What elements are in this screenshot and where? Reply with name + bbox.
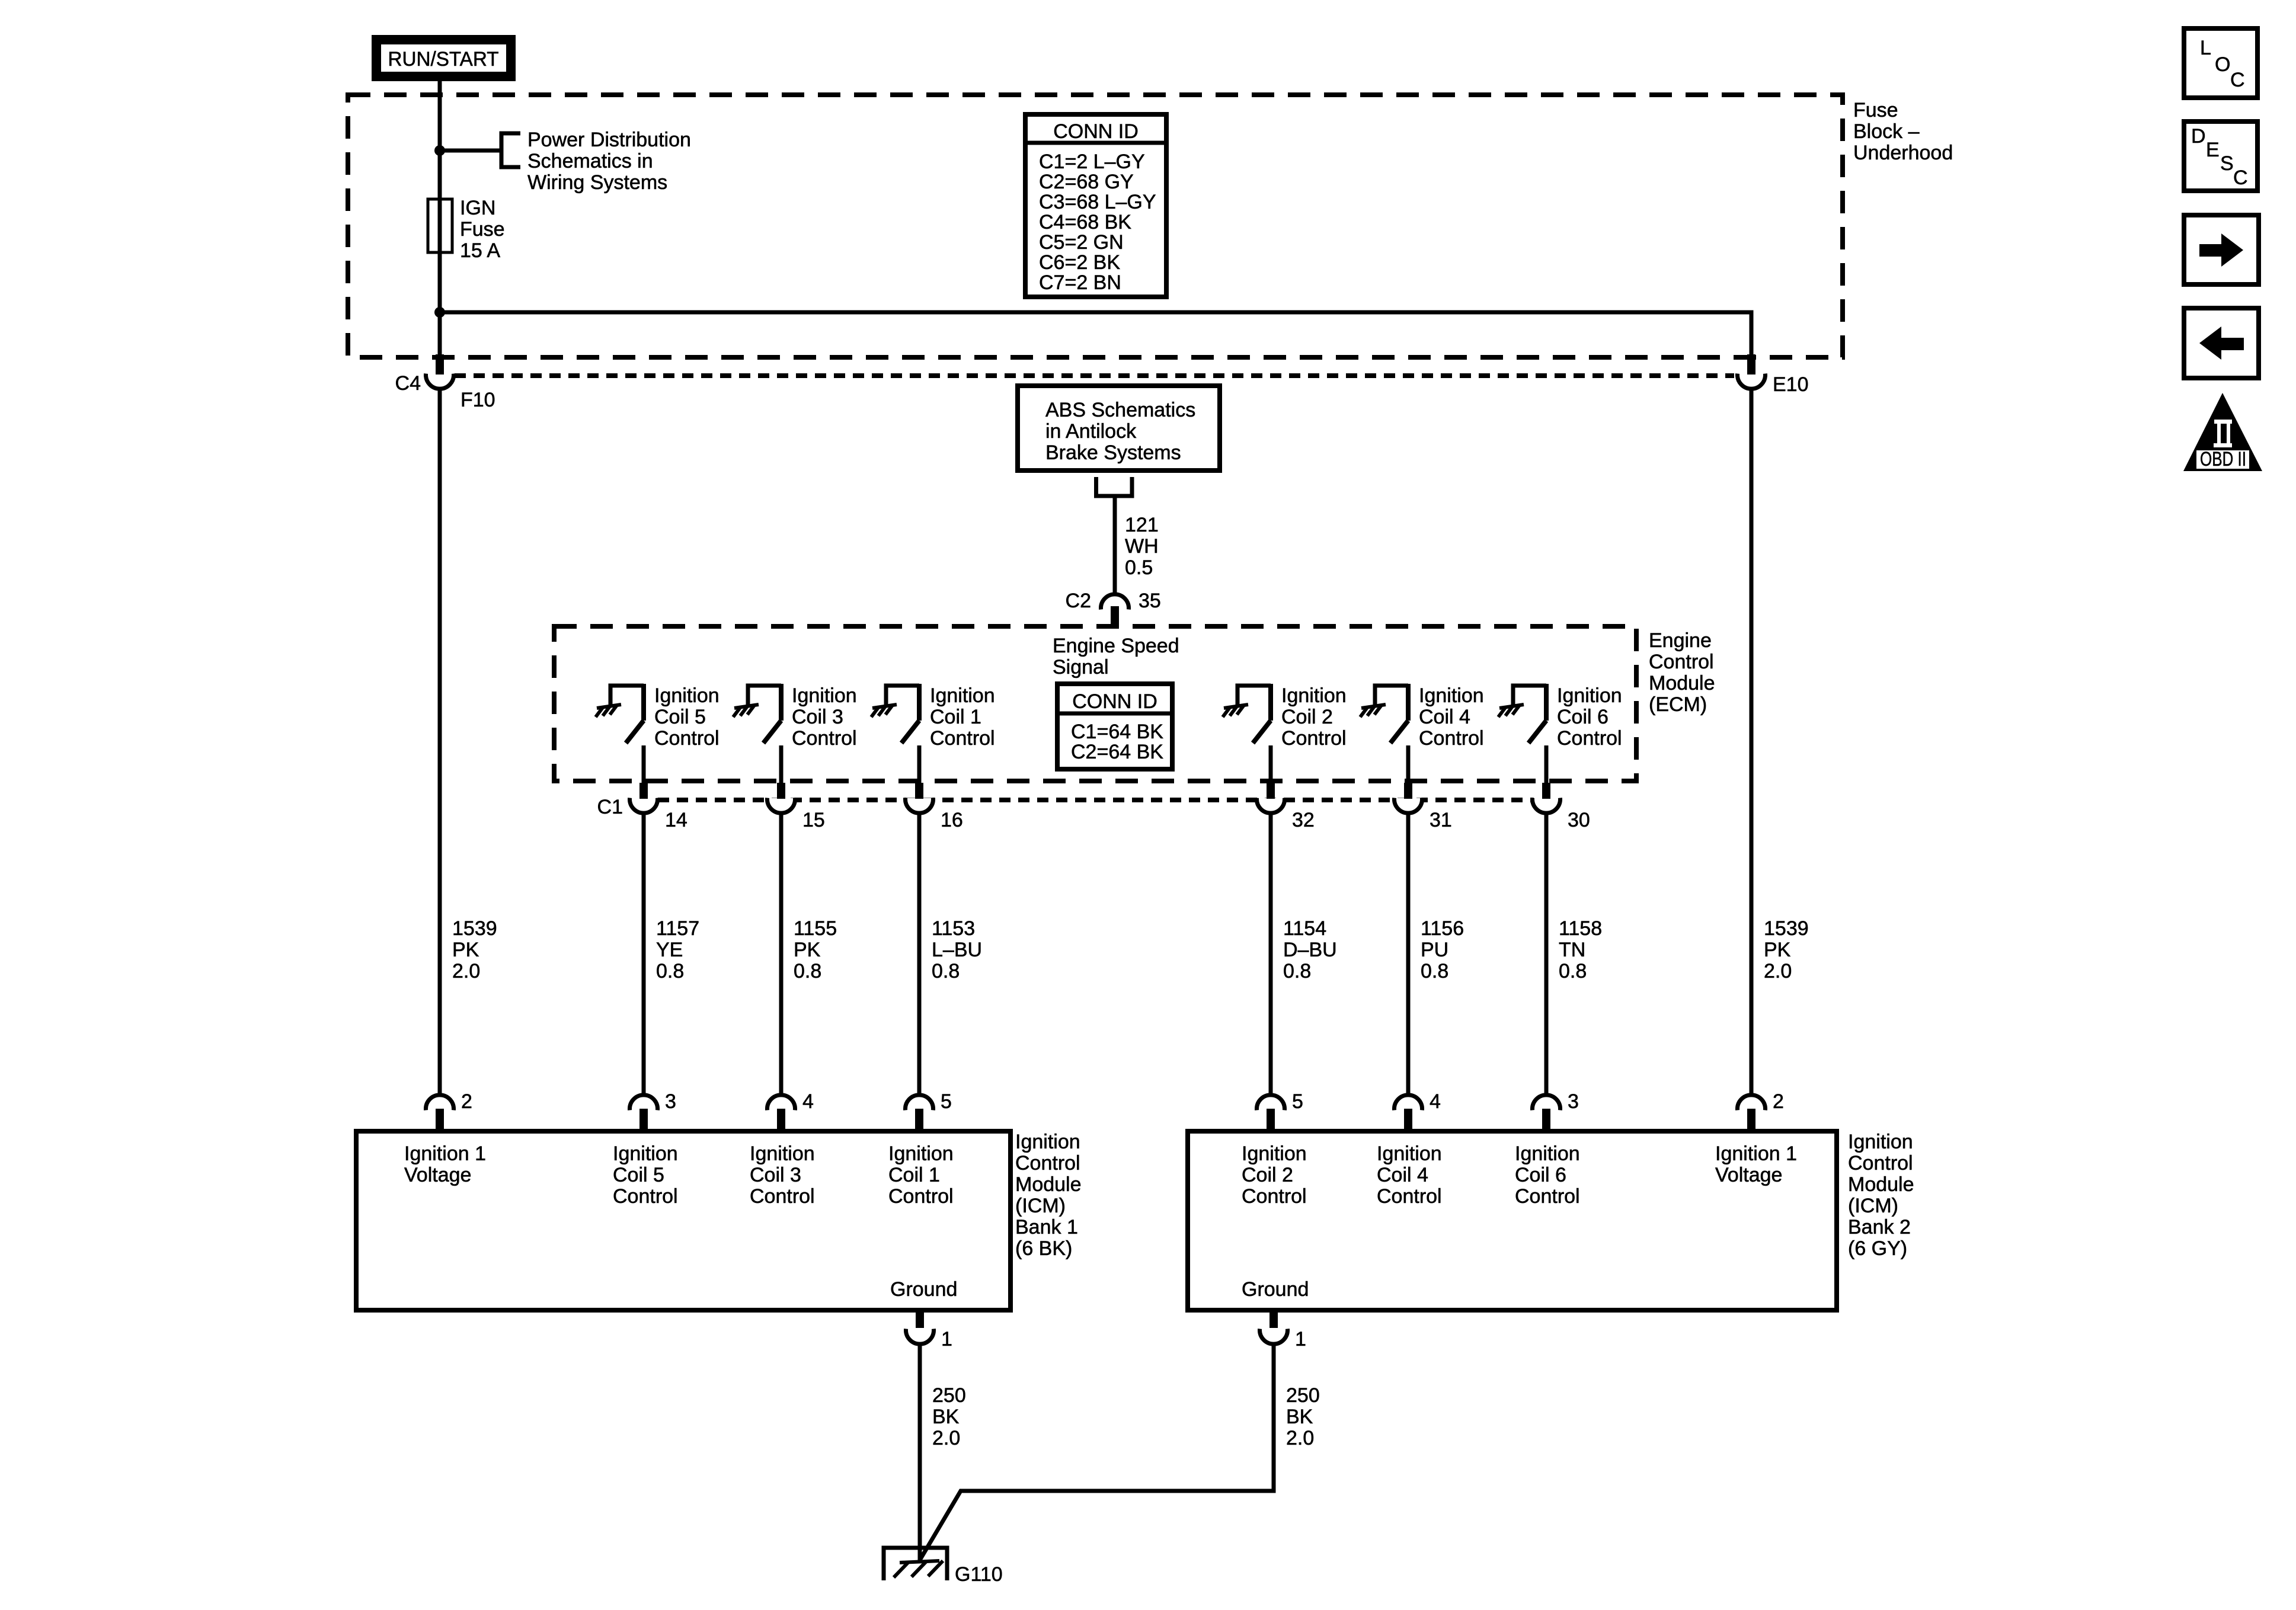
ground G110 [884, 1548, 947, 1580]
wire 250 BK from ICM bank2 to G110 [920, 1344, 1274, 1559]
svg-text:3: 3 [1568, 1090, 1579, 1113]
connector C1 pin 32 (ECM) [1257, 745, 1285, 813]
svg-text:C7=2 BN: C7=2 BN [1039, 271, 1121, 294]
svg-text:Engine: Engine [1649, 629, 1712, 652]
connector ground pin 1 (ICM) [906, 1311, 934, 1344]
svg-text:Ignition 1: Ignition 1 [404, 1142, 486, 1165]
wire branch to power distribution reference [440, 149, 501, 153]
svg-text:1539: 1539 [1764, 917, 1809, 940]
connector C1 pin 16 (ECM) [906, 745, 933, 813]
svg-text:TN: TN [1559, 939, 1585, 961]
svg-text:C4=68 BK: C4=68 BK [1039, 211, 1131, 233]
label circuit 1154 D–BU 0.8 [1283, 917, 1337, 982]
label circuit 1158 TN 0.8 [1559, 917, 1602, 982]
svg-text:Wiring Systems: Wiring Systems [527, 171, 667, 194]
svg-text:C2=64 BK: C2=64 BK [1071, 741, 1163, 763]
svg-text:0.8: 0.8 [656, 960, 684, 982]
wire RUN/START to fuse F10 [438, 81, 442, 354]
svg-text:16: 16 [941, 809, 963, 831]
ignition coil 5 driver (ECM internal) [596, 684, 720, 750]
svg-text:1154: 1154 [1283, 917, 1326, 940]
svg-text:O: O [2215, 53, 2230, 76]
svg-text:Control: Control [1242, 1185, 1307, 1208]
svg-text:C: C [2230, 69, 2245, 91]
label circuit 121 WH 0.5 [1125, 514, 1159, 579]
svg-text:PK: PK [1764, 939, 1791, 961]
svg-text:Coil 5: Coil 5 [654, 706, 706, 728]
svg-text:C1=2 L–GY: C1=2 L–GY [1039, 151, 1145, 173]
box Ignition Control Module ICM Bank 2 [1188, 1131, 1837, 1310]
switch RUN/START [372, 35, 516, 81]
svg-text:0.8: 0.8 [1421, 960, 1448, 982]
svg-text:5: 5 [941, 1090, 952, 1113]
wire ABS to C2 pin 35 (121 WH) [1113, 498, 1117, 595]
svg-text:Coil 1: Coil 1 [930, 706, 981, 728]
svg-text:BK: BK [1286, 1406, 1313, 1428]
connector pin 2 (ICM) [1738, 1095, 1766, 1129]
svg-text:Ignition: Ignition [654, 684, 720, 707]
connector pin 3 (ICM) [1533, 1095, 1560, 1129]
svg-text:C2: C2 [1066, 590, 1091, 612]
svg-text:Module: Module [1015, 1173, 1082, 1196]
wire 250 BK from ICM bank1 to G110 [918, 1344, 922, 1562]
svg-text:0.8: 0.8 [932, 960, 960, 982]
svg-text:30: 30 [1568, 809, 1590, 831]
svg-text:1155: 1155 [794, 917, 837, 940]
connector C1 pin 14 (ECM) [630, 745, 658, 813]
svg-text:5: 5 [1292, 1090, 1303, 1113]
svg-text:250: 250 [932, 1384, 966, 1407]
svg-text:L: L [2200, 37, 2211, 59]
svg-text:Power Distribution: Power Distribution [527, 129, 691, 151]
svg-text:2.0: 2.0 [1286, 1427, 1314, 1449]
svg-text:ABS Schematics: ABS Schematics [1045, 399, 1195, 421]
svg-text:Control: Control [1419, 727, 1484, 750]
svg-text:Block –: Block – [1853, 120, 1920, 143]
wire fuse output bus to E10 [440, 312, 1751, 354]
svg-text:Underhood: Underhood [1853, 142, 1953, 164]
svg-text:Ignition: Ignition [792, 684, 857, 707]
svg-text:E: E [2206, 139, 2220, 161]
svg-text:Ignition 1: Ignition 1 [1715, 1142, 1797, 1165]
ignition coil 3 driver (ECM internal) [733, 684, 857, 750]
box ABS Schematics in Antilock Brake Systems [1018, 386, 1220, 470]
svg-text:Ignition: Ignition [1515, 1142, 1580, 1165]
svg-text:Ignition: Ignition [1557, 684, 1622, 707]
svg-text:0.8: 0.8 [794, 960, 821, 982]
svg-text:Fuse: Fuse [1853, 99, 1898, 121]
table CONN ID (fuse block connectors) [1025, 114, 1166, 297]
svg-text:0.8: 0.8 [1559, 960, 1587, 982]
label circuit 1157 YE 0.8 [656, 917, 699, 982]
svg-text:Ignition: Ignition [888, 1142, 954, 1165]
svg-text:Coil 2: Coil 2 [1242, 1164, 1293, 1186]
svg-text:PK: PK [794, 939, 821, 961]
svg-text:RUN/START: RUN/START [388, 48, 499, 71]
svg-text:Brake Systems: Brake Systems [1045, 441, 1181, 464]
label circuit 1153 L–BU 0.8 [932, 917, 982, 982]
dotted connector line under fuse block [455, 373, 1734, 378]
connector pin 5 (ICM) [906, 1095, 933, 1129]
label IGN Fuse 15 A [460, 197, 505, 262]
svg-text:Bank 1: Bank 1 [1015, 1216, 1078, 1238]
svg-text:Coil 3: Coil 3 [750, 1164, 801, 1186]
svg-text:Coil 5: Coil 5 [613, 1164, 664, 1186]
svg-text:Coil 6: Coil 6 [1557, 706, 1609, 728]
label Engine Speed Signal [1053, 635, 1179, 678]
connector C1 pin 31 (ECM) [1395, 745, 1422, 813]
svg-text:Control: Control [1515, 1185, 1580, 1208]
svg-text:G110: G110 [955, 1563, 1003, 1586]
svg-text:Control: Control [1281, 727, 1347, 750]
connector pin 5 (ICM) [1257, 1095, 1285, 1129]
icon DESC [2184, 121, 2257, 191]
svg-text:Control: Control [654, 727, 720, 750]
svg-text:OBD II: OBD II [2200, 448, 2246, 470]
svg-text:Fuse: Fuse [460, 218, 505, 241]
svg-text:0.8: 0.8 [1283, 960, 1311, 982]
wire 1157 YE from ECM to ICM [642, 812, 646, 1096]
svg-text:14: 14 [665, 809, 687, 831]
svg-text:250: 250 [1286, 1384, 1320, 1407]
svg-text:(ICM): (ICM) [1015, 1195, 1066, 1217]
svg-text:YE: YE [656, 939, 683, 961]
connector pin 3 (ICM) [630, 1095, 658, 1129]
svg-text:Control: Control [613, 1185, 678, 1208]
svg-text:121: 121 [1125, 514, 1159, 536]
junction node at power distribution branch [434, 145, 445, 156]
svg-text:Bank 2: Bank 2 [1848, 1216, 1911, 1238]
svg-text:3: 3 [665, 1090, 676, 1113]
svg-text:15: 15 [802, 809, 825, 831]
icon arrow right [2184, 215, 2259, 284]
svg-text:1539: 1539 [452, 917, 497, 940]
svg-text:in Antilock: in Antilock [1045, 420, 1137, 443]
svg-text:CONN ID: CONN ID [1053, 120, 1139, 143]
svg-text:Ignition: Ignition [1015, 1131, 1080, 1153]
svg-text:Control: Control [1557, 727, 1622, 750]
svg-text:C4: C4 [395, 372, 421, 395]
off-page reference bracket (power distribution) [501, 133, 520, 167]
svg-text:(ECM): (ECM) [1649, 693, 1707, 716]
svg-text:2: 2 [1773, 1090, 1784, 1113]
label Power Distribution Schematics in Wiring Systems [527, 129, 691, 194]
svg-text:1: 1 [941, 1328, 952, 1350]
wire 1158 TN from ECM to ICM [1544, 812, 1549, 1096]
svg-text:Control: Control [1015, 1152, 1080, 1174]
svg-text:Coil 4: Coil 4 [1419, 706, 1470, 728]
label Engine Control Module (ECM) [1649, 629, 1715, 716]
svg-text:Engine Speed: Engine Speed [1053, 635, 1179, 657]
connector E10 terminal [1738, 354, 1766, 389]
svg-text:C1=64 BK: C1=64 BK [1071, 721, 1163, 743]
svg-text:Coil 4: Coil 4 [1377, 1164, 1428, 1186]
svg-text:Control: Control [1848, 1152, 1913, 1174]
ignition coil 6 driver (ECM internal) [1498, 684, 1622, 750]
svg-text:Ignition: Ignition [1242, 1142, 1307, 1165]
label circuit 1155 PK 0.8 [794, 917, 837, 982]
svg-text:S: S [2220, 152, 2234, 175]
svg-text:2: 2 [461, 1090, 472, 1113]
wire 1539 PK from fuse block to ICM [1750, 389, 1754, 1096]
fuse IGN 15 A [428, 199, 452, 252]
svg-text:2.0: 2.0 [452, 960, 480, 982]
svg-text:Control: Control [930, 727, 995, 750]
svg-text:2.0: 2.0 [1764, 960, 1792, 982]
svg-text:Ignition: Ignition [930, 684, 995, 707]
svg-text:C2=68 GY: C2=68 GY [1039, 171, 1134, 193]
label circuit 250 BK 2.0 (left) [932, 1384, 966, 1449]
table CONN ID (ECM connectors) [1057, 684, 1172, 769]
connector pin 2 (ICM) [426, 1095, 454, 1129]
svg-text:1158: 1158 [1559, 917, 1602, 940]
svg-text:Control: Control [750, 1185, 815, 1208]
svg-text:Module: Module [1848, 1173, 1914, 1196]
svg-text:CONN ID: CONN ID [1072, 690, 1157, 713]
label circuit 250 BK 2.0 (right) [1286, 1384, 1320, 1449]
label Ignition Control Module (ICM) Bank 1 (6 BK) [1015, 1131, 1082, 1260]
svg-text:32: 32 [1292, 809, 1315, 831]
connector ground pin 1 (ICM) [1260, 1311, 1288, 1344]
svg-text:IGN: IGN [460, 197, 495, 219]
svg-text:C: C [2233, 167, 2248, 189]
svg-text:C3=68 L–GY: C3=68 L–GY [1039, 191, 1156, 213]
connector C4 terminal F10 [426, 354, 454, 389]
svg-text:Voltage: Voltage [404, 1164, 471, 1186]
ignition coil 2 driver (ECM internal) [1223, 684, 1347, 750]
connector C2 pin 35 (ECM) [1101, 594, 1129, 625]
svg-text:4: 4 [1430, 1090, 1441, 1113]
svg-text:1153: 1153 [932, 917, 975, 940]
svg-text:1157: 1157 [656, 917, 699, 940]
wire 1153 L–BU from ECM to ICM [917, 812, 922, 1096]
wire 1155 PK from ECM to ICM [779, 812, 784, 1096]
dotted connector line under ECM [658, 798, 1534, 802]
svg-text:1156: 1156 [1421, 917, 1464, 940]
svg-text:Voltage: Voltage [1715, 1164, 1782, 1186]
connector C1 pin 15 (ECM) [768, 745, 795, 813]
svg-text:L–BU: L–BU [932, 939, 982, 961]
svg-text:Coil 6: Coil 6 [1515, 1164, 1566, 1186]
svg-text:15 A: 15 A [460, 239, 500, 262]
svg-text:Module: Module [1649, 672, 1715, 694]
svg-text:BK: BK [932, 1406, 960, 1428]
connector pin 4 (ICM) [1395, 1095, 1422, 1129]
svg-text:WH: WH [1125, 535, 1159, 558]
svg-text:Ignition: Ignition [750, 1142, 815, 1165]
svg-text:(ICM): (ICM) [1848, 1195, 1898, 1217]
wire 1154 D–BU from ECM to ICM [1269, 812, 1273, 1096]
engine control module ECM (dashed outline) [554, 626, 1636, 781]
svg-text:0.5: 0.5 [1125, 556, 1153, 579]
off-page reference bracket (ABS) [1094, 477, 1134, 496]
svg-text:(6 GY): (6 GY) [1848, 1237, 1907, 1260]
svg-text:Ground: Ground [890, 1278, 957, 1301]
wire 1539 PK from fuse block to ICM [438, 389, 442, 1096]
connector pin 4 (ICM) [768, 1095, 795, 1129]
ignition coil 4 driver (ECM internal) [1360, 684, 1484, 750]
connector C1 pin 30 (ECM) [1533, 745, 1560, 813]
svg-text:Ignition: Ignition [1377, 1142, 1442, 1165]
icon LOC [2184, 28, 2257, 98]
label circuit 1156 PU 0.8 [1421, 917, 1464, 982]
svg-text:Ignition: Ignition [1281, 684, 1347, 707]
box Ignition Control Module ICM Bank 1 [356, 1131, 1011, 1310]
svg-text:(6 BK): (6 BK) [1015, 1237, 1072, 1260]
svg-text:D: D [2191, 125, 2206, 148]
svg-text:Ignition: Ignition [613, 1142, 678, 1165]
icon arrow left [2184, 308, 2259, 378]
svg-text:2.0: 2.0 [932, 1427, 960, 1449]
svg-text:Control: Control [1649, 651, 1714, 673]
svg-text:1: 1 [1295, 1328, 1306, 1350]
svg-text:4: 4 [802, 1090, 814, 1113]
svg-text:Control: Control [888, 1185, 954, 1208]
svg-text:Coil 2: Coil 2 [1281, 706, 1333, 728]
svg-text:Signal: Signal [1053, 656, 1109, 678]
wire 1156 PU from ECM to ICM [1406, 812, 1411, 1096]
svg-text:E10: E10 [1773, 373, 1809, 396]
svg-text:Control: Control [1377, 1185, 1442, 1208]
junction node to E10 feed [434, 307, 445, 318]
svg-text:Coil 3: Coil 3 [792, 706, 843, 728]
label Fuse Block - Underhood [1853, 99, 1953, 164]
svg-text:Control: Control [792, 727, 857, 750]
svg-text:Ignition: Ignition [1848, 1131, 1913, 1153]
svg-text:D–BU: D–BU [1283, 939, 1337, 961]
svg-text:PU: PU [1421, 939, 1448, 961]
svg-text:Ground: Ground [1242, 1278, 1309, 1301]
svg-text:Coil 1: Coil 1 [888, 1164, 940, 1186]
svg-text:C1: C1 [597, 796, 623, 818]
svg-text:31: 31 [1430, 809, 1452, 831]
label circuit 1539 PK 2.0 [452, 917, 497, 982]
label Ignition Control Module (ICM) Bank 2 (6 GY) [1848, 1131, 1914, 1260]
ignition coil 1 driver (ECM internal) [871, 684, 995, 750]
svg-text:Ignition: Ignition [1419, 684, 1484, 707]
icon OBD II triangle [2183, 393, 2262, 471]
label circuit 1539 PK 2.0 [1764, 917, 1809, 982]
svg-text:C6=2 BK: C6=2 BK [1039, 251, 1120, 274]
svg-text:PK: PK [452, 939, 479, 961]
svg-text:F10: F10 [461, 389, 495, 411]
svg-text:35: 35 [1139, 590, 1161, 612]
svg-text:C5=2 GN: C5=2 GN [1039, 231, 1124, 254]
svg-text:Schematics in: Schematics in [527, 150, 653, 172]
fuse block underhood (dashed outline) [348, 95, 1843, 357]
